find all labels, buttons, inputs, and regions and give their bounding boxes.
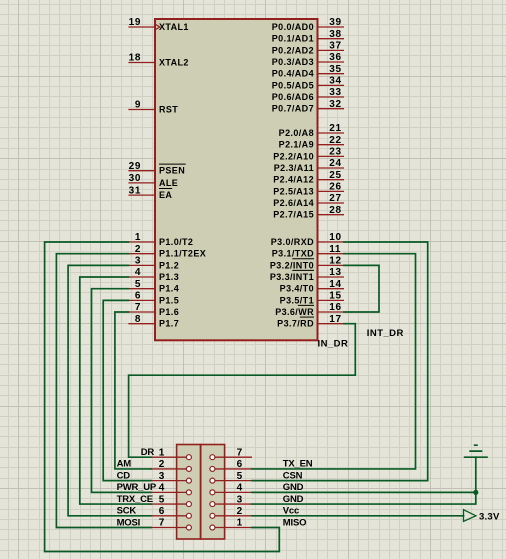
svg-text:EA: EA	[159, 190, 172, 200]
svg-text:27: 27	[329, 193, 341, 204]
svg-text:XTAL1: XTAL1	[159, 22, 189, 32]
net label IN_DR	[318, 339, 349, 350]
svg-text:6: 6	[159, 506, 165, 517]
net label MISO	[283, 517, 306, 528]
svg-text:MOSI: MOSI	[117, 517, 140, 528]
net label MOSI	[117, 517, 140, 528]
svg-text:13: 13	[329, 267, 341, 278]
svg-text:21: 21	[329, 123, 341, 134]
pin 18 XTAL2	[128, 53, 155, 64]
svg-text:PWR_UP: PWR_UP	[117, 482, 157, 493]
svg-text:PSEN: PSEN	[159, 166, 185, 176]
svg-text:4: 4	[159, 483, 165, 494]
svg-text:DR: DR	[141, 447, 155, 458]
wire P1.5 to CD	[103, 300, 151, 480]
net label GND	[283, 494, 304, 505]
svg-text:P2.0/A8: P2.0/A8	[279, 128, 314, 138]
net label INT_DR	[367, 328, 404, 339]
svg-text:5: 5	[159, 494, 165, 505]
wire P3.1/TXD to TX_EN	[252, 254, 416, 469]
pin 14 P3.4/T0	[318, 279, 345, 290]
pin 27 P2.6/A14	[318, 193, 345, 204]
svg-text:35: 35	[329, 64, 341, 75]
svg-text:P3.4/T0: P3.4/T0	[280, 284, 314, 294]
svg-text:12: 12	[329, 256, 341, 267]
svg-text:P0.6/AD6: P0.6/AD6	[272, 92, 314, 102]
svg-text:P1.2: P1.2	[159, 260, 179, 270]
svg-text:P1.4: P1.4	[159, 284, 179, 294]
connector pin 7 right (nc)	[210, 447, 252, 459]
svg-text:P3.0/RXD: P3.0/RXD	[271, 237, 314, 247]
XTAL1 clock symbol	[154, 24, 160, 31]
svg-text:4: 4	[135, 267, 141, 278]
svg-text:P1.1/T2EX: P1.1/T2EX	[159, 249, 206, 259]
wire P1.1/T2EX to MOSI	[56, 254, 151, 528]
pin 31 EA	[128, 185, 155, 196]
svg-text:XTAL2: XTAL2	[159, 58, 189, 68]
svg-text:P1.3: P1.3	[159, 272, 179, 282]
svg-text:P0.7/AD7: P0.7/AD7	[272, 104, 314, 114]
pin 29 PSEN	[128, 161, 155, 172]
svg-text:38: 38	[329, 29, 341, 40]
svg-text:28: 28	[329, 205, 341, 216]
svg-text:37: 37	[329, 41, 341, 52]
svg-text:P0.0/AD0: P0.0/AD0	[272, 22, 314, 32]
svg-text:P3.1/TXD: P3.1/TXD	[272, 249, 314, 259]
svg-text:P3.2/INT0: P3.2/INT0	[270, 260, 314, 270]
svg-text:19: 19	[129, 17, 141, 28]
pin 33 P0.6/AD6	[318, 87, 345, 98]
svg-text:1: 1	[237, 518, 243, 529]
pin 26 P2.5/A13	[318, 182, 345, 193]
net label DR	[141, 447, 155, 458]
pin 28 P2.7/A15	[318, 205, 345, 216]
svg-text:P2.1/A9: P2.1/A9	[279, 140, 314, 150]
svg-text:3: 3	[159, 471, 165, 482]
connector pin 4 right (GND)	[210, 483, 252, 495]
svg-text:36: 36	[329, 52, 341, 63]
wire P3.0/RXD to CSN	[252, 242, 428, 481]
pin 21 P2.0/A8	[318, 123, 345, 134]
pin 38 P0.1/AD1	[318, 29, 345, 40]
pin 19 XTAL1	[128, 17, 155, 28]
svg-text:6: 6	[135, 291, 141, 302]
svg-text:P0.4/AD4: P0.4/AD4	[272, 69, 314, 79]
pin 35 P0.4/AD4	[318, 64, 345, 75]
svg-text:P2.5/A13: P2.5/A13	[273, 186, 314, 196]
wire P1.2 to SCK	[68, 265, 151, 515]
svg-text:P1.7: P1.7	[159, 319, 179, 329]
svg-text:P1.5: P1.5	[159, 295, 179, 305]
ground symbol	[464, 445, 488, 457]
connector pin 5 right (CSN)	[210, 471, 252, 483]
pin 4 P1.3	[128, 267, 155, 278]
svg-text:SCK: SCK	[117, 506, 137, 517]
pin 25 P2.4/A12	[318, 170, 345, 181]
svg-text:7: 7	[135, 302, 141, 313]
svg-text:P2.3/A11: P2.3/A11	[274, 163, 314, 173]
svg-text:4: 4	[237, 483, 243, 494]
pin 15 P3.5/T1	[318, 291, 345, 302]
connector pin 1 right (MISO)	[210, 518, 252, 530]
pin 37 P0.2/AD2	[318, 41, 345, 52]
svg-text:GND: GND	[283, 482, 304, 493]
svg-text:2: 2	[159, 459, 165, 470]
svg-text:GND: GND	[283, 494, 304, 505]
svg-text:26: 26	[329, 182, 341, 193]
connector pin 6 left (SCK)	[150, 506, 192, 518]
pin 10 P3.0/RXD	[318, 232, 345, 243]
pin 2 P1.1/T2EX	[128, 244, 155, 255]
svg-text:P0.1/AD1: P0.1/AD1	[272, 34, 314, 44]
connector pin 2 right (Vcc)	[210, 506, 252, 518]
svg-text:P0.3/AD3: P0.3/AD3	[272, 57, 314, 67]
pin 32 P0.7/AD7	[318, 99, 345, 110]
power terminal 3.3V	[464, 510, 500, 523]
svg-text:ALE: ALE	[159, 178, 178, 188]
svg-text:18: 18	[129, 53, 141, 64]
svg-text:30: 30	[129, 173, 141, 184]
net label PWR_UP	[117, 482, 157, 493]
svg-text:P3.7/RD: P3.7/RD	[277, 319, 314, 329]
wire GND pin3 to ground	[252, 457, 476, 504]
pin 1 P1.0/T2	[128, 232, 155, 243]
connector pin 6 right (TX_EN)	[210, 459, 252, 471]
net label TRX_CE	[117, 494, 153, 505]
svg-text:15: 15	[329, 291, 341, 302]
svg-text:IN_DR: IN_DR	[318, 339, 349, 350]
pin 11 P3.1/TXD	[318, 244, 345, 255]
net label TX_EN	[283, 459, 313, 470]
pin 39 P0.0/AD0	[318, 17, 345, 28]
pin 22 P2.1/A9	[318, 135, 345, 146]
svg-text:INT_DR: INT_DR	[367, 328, 404, 339]
svg-text:P3.5/T1: P3.5/T1	[280, 295, 314, 305]
svg-text:5: 5	[237, 471, 243, 482]
svg-text:14: 14	[329, 279, 341, 290]
svg-text:P2.7/A15: P2.7/A15	[273, 210, 314, 220]
junction node GND	[473, 490, 478, 495]
svg-text:8: 8	[135, 314, 141, 325]
wire P1.3 to TRX_CE	[80, 277, 151, 504]
svg-text:22: 22	[329, 135, 341, 146]
pin 3 P1.2	[128, 256, 155, 267]
svg-text:TRX_CE: TRX_CE	[117, 494, 153, 505]
svg-text:1: 1	[159, 447, 165, 458]
svg-text:5: 5	[135, 279, 141, 290]
svg-text:1: 1	[135, 232, 141, 243]
net label Vcc	[283, 506, 299, 517]
connector pin 3 left (CD)	[150, 471, 192, 483]
svg-text:AM: AM	[117, 459, 132, 470]
svg-text:P2.6/A14: P2.6/A14	[273, 198, 314, 208]
connector J1 right body	[201, 445, 225, 540]
svg-text:31: 31	[129, 185, 141, 196]
svg-text:29: 29	[129, 161, 141, 172]
svg-text:33: 33	[329, 87, 341, 98]
net label CD	[117, 470, 131, 481]
pin 12 P3.2/INT0	[318, 256, 345, 267]
connector pin 4 left (PWR_UP)	[150, 483, 192, 495]
svg-text:P3.6/WR: P3.6/WR	[275, 307, 314, 317]
svg-text:P2.4/A12: P2.4/A12	[273, 175, 314, 185]
svg-text:P0.2/AD2: P0.2/AD2	[272, 45, 314, 55]
wire P3.2/INT0 to P3.6/WR (INT_DR)	[344, 265, 379, 312]
svg-text:17: 17	[329, 314, 341, 325]
svg-text:CD: CD	[117, 470, 131, 481]
svg-text:P0.5/AD5: P0.5/AD5	[272, 80, 314, 90]
svg-text:3: 3	[237, 494, 243, 505]
connector pin 7 left (MOSI)	[150, 518, 192, 530]
svg-text:3: 3	[135, 256, 141, 267]
wire Vcc pin2 to 3.3V	[252, 515, 464, 517]
pin 24 P2.3/A11	[318, 158, 345, 169]
svg-text:P2.2/A10: P2.2/A10	[273, 151, 314, 161]
svg-text:23: 23	[329, 147, 341, 158]
wire P1.4 to PWR_UP	[92, 289, 152, 493]
pin 6 P1.5	[128, 291, 155, 302]
svg-text:2: 2	[135, 244, 141, 255]
svg-text:7: 7	[159, 518, 165, 529]
pin 5 P1.4	[128, 279, 155, 290]
svg-text:7: 7	[237, 447, 243, 458]
svg-text:32: 32	[329, 99, 341, 110]
svg-text:MISO: MISO	[283, 517, 306, 528]
pin 13 P3.3/INT1	[318, 267, 345, 278]
net label GND	[283, 482, 304, 493]
svg-text:25: 25	[329, 170, 341, 181]
svg-text:39: 39	[329, 17, 341, 28]
connector pin 2 left (AM)	[150, 459, 192, 471]
svg-text:RST: RST	[159, 105, 178, 115]
pin 34 P0.5/AD5	[318, 76, 345, 87]
pin 7 P1.6	[128, 302, 155, 313]
svg-text:P3.3/INT1: P3.3/INT1	[270, 272, 314, 282]
MCU 8051 U1 body	[155, 19, 318, 340]
connector pin 5 left (TRX_CE)	[150, 494, 192, 506]
net label CSN	[283, 470, 303, 481]
svg-text:P1.0/T2: P1.0/T2	[159, 237, 193, 247]
svg-text:CSN: CSN	[283, 470, 303, 481]
svg-text:2: 2	[237, 506, 243, 517]
pin 8 P1.7	[128, 314, 155, 325]
pin 36 P0.3/AD3	[318, 52, 345, 63]
connector pin 3 right (GND)	[210, 494, 252, 506]
svg-text:TX_EN: TX_EN	[283, 459, 313, 470]
pin 30 ALE	[128, 173, 155, 184]
wire GND pin4 to ground	[252, 491, 476, 493]
svg-text:34: 34	[329, 76, 341, 87]
svg-text:16: 16	[329, 302, 341, 313]
pin 23 P2.2/A10	[318, 147, 345, 158]
svg-text:11: 11	[329, 244, 341, 255]
svg-text:6: 6	[237, 459, 243, 470]
svg-text:9: 9	[135, 100, 141, 111]
svg-text:24: 24	[329, 158, 341, 169]
pin 17 P3.7/RD	[318, 314, 345, 325]
pin 16 P3.6/WR	[318, 302, 345, 313]
net label SCK	[117, 506, 137, 517]
pin 9 RST	[128, 100, 155, 111]
svg-text:3.3V: 3.3V	[479, 512, 500, 523]
svg-text:P1.6: P1.6	[159, 307, 179, 317]
connector J1 left body	[177, 445, 201, 540]
net label AM	[117, 459, 132, 470]
svg-text:Vcc: Vcc	[283, 506, 299, 517]
wire P3.7/RD to DR	[129, 324, 356, 458]
connector pin 1 left (DR)	[150, 447, 192, 459]
wire P1.6 to AM	[115, 312, 151, 469]
wire P1.0/T2 to MISO	[45, 242, 280, 552]
svg-text:10: 10	[329, 232, 341, 243]
